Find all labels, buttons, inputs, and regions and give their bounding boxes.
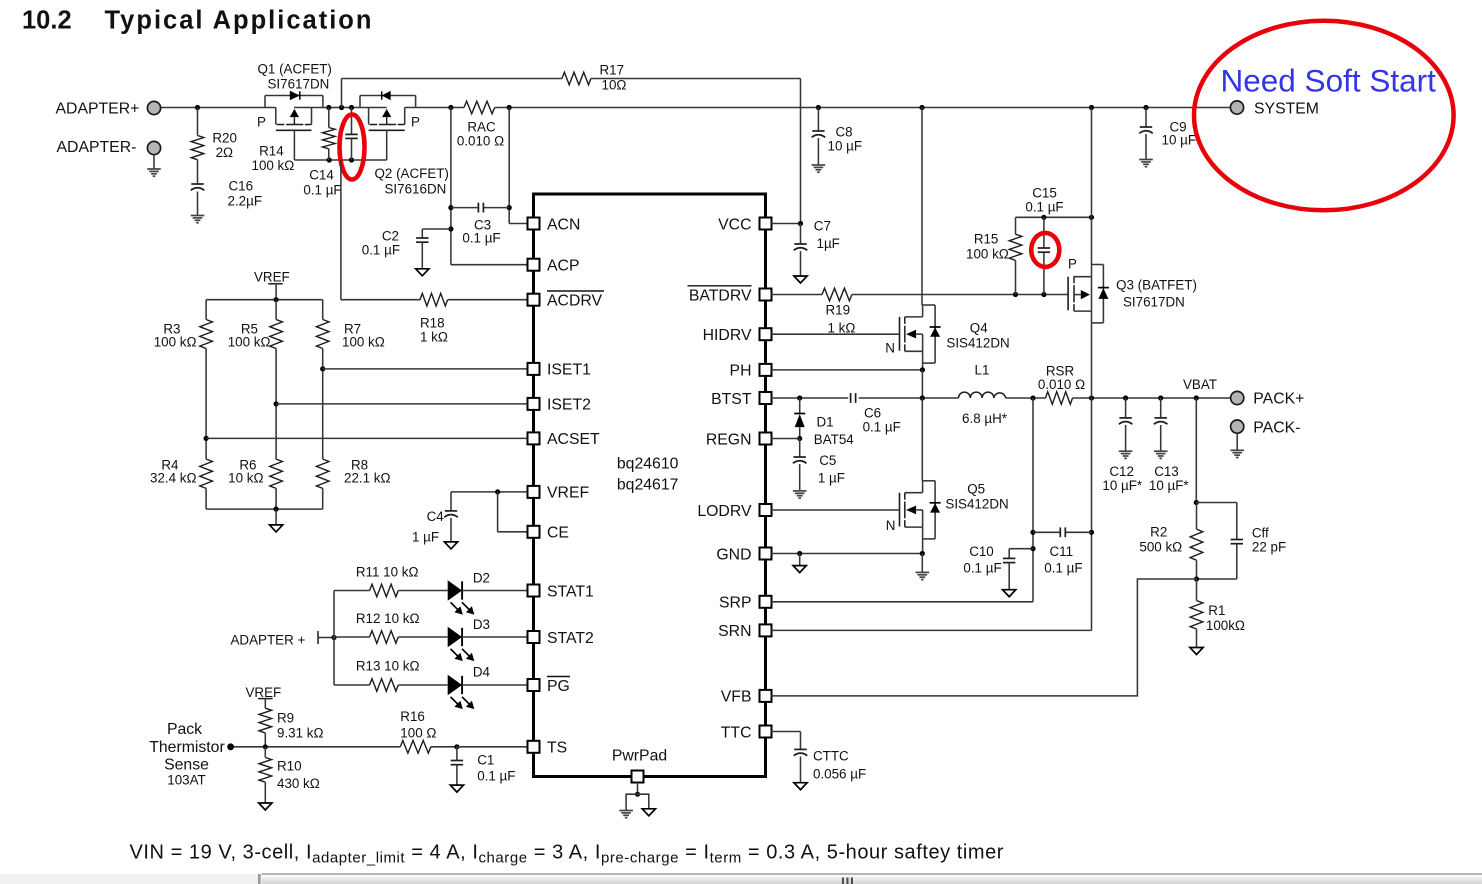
svg-text:Need Soft Start: Need Soft Start xyxy=(1221,63,1437,99)
svg-text:P: P xyxy=(411,115,420,130)
svg-text:GND: GND xyxy=(716,546,751,563)
svg-text:VCC: VCC xyxy=(718,216,751,233)
svg-text:1µF: 1µF xyxy=(817,236,840,251)
svg-text:VREF: VREF xyxy=(254,270,290,285)
svg-text:100kΩ: 100kΩ xyxy=(1206,618,1245,633)
svg-text:32.4 kΩ: 32.4 kΩ xyxy=(150,471,197,486)
svg-text:C13: C13 xyxy=(1154,464,1179,479)
svg-text:R19: R19 xyxy=(826,303,851,318)
svg-text:Q1 (ACFET): Q1 (ACFET) xyxy=(258,62,332,77)
svg-text:CE: CE xyxy=(547,525,569,542)
svg-text:0.1 µF: 0.1 µF xyxy=(477,769,515,784)
svg-text:R20: R20 xyxy=(212,131,237,146)
svg-text:10.2: 10.2 xyxy=(22,7,72,35)
svg-text:C11: C11 xyxy=(1050,544,1074,559)
svg-text:100 kΩ: 100 kΩ xyxy=(228,335,271,350)
svg-text:ADAPTER +: ADAPTER + xyxy=(231,633,306,648)
svg-text:HIDRV: HIDRV xyxy=(703,327,752,344)
svg-text:430 kΩ: 430 kΩ xyxy=(277,776,320,791)
svg-text:2Ω: 2Ω xyxy=(216,145,233,160)
svg-text:STAT1: STAT1 xyxy=(547,583,594,600)
svg-text:P: P xyxy=(257,115,266,130)
svg-text:Thermistor: Thermistor xyxy=(149,739,224,756)
svg-text:C4: C4 xyxy=(427,509,445,524)
svg-text:C2: C2 xyxy=(382,229,399,244)
svg-text:C7: C7 xyxy=(814,219,831,234)
svg-text:C1: C1 xyxy=(477,753,494,768)
svg-text:ACP: ACP xyxy=(547,258,579,275)
svg-text:CTTC: CTTC xyxy=(813,749,849,764)
svg-text:VIN = 19 V, 3-cell, Iadapter_l: VIN = 19 V, 3-cell, Iadapter_limit = 4 A… xyxy=(130,842,1004,867)
svg-text:Q5: Q5 xyxy=(967,482,985,497)
svg-text:0.1 µF: 0.1 µF xyxy=(1025,200,1063,215)
svg-text:0.1 µF: 0.1 µF xyxy=(303,183,341,198)
svg-text:RAC: RAC xyxy=(467,120,496,135)
svg-text:Q4: Q4 xyxy=(970,321,988,336)
svg-text:ADAPTER+: ADAPTER+ xyxy=(56,101,140,118)
svg-text:100 Ω: 100 Ω xyxy=(400,726,436,741)
svg-text:Pack: Pack xyxy=(167,721,202,738)
svg-text:PACK+: PACK+ xyxy=(1253,391,1304,408)
svg-text:1 kΩ: 1 kΩ xyxy=(828,321,856,336)
svg-text:100 kΩ: 100 kΩ xyxy=(154,335,197,350)
svg-text:C16: C16 xyxy=(229,179,254,194)
svg-text:C15: C15 xyxy=(1032,186,1057,201)
svg-text:R17: R17 xyxy=(600,63,625,78)
svg-text:PH: PH xyxy=(730,363,752,380)
svg-text:REGN: REGN xyxy=(706,431,752,448)
svg-text:D2: D2 xyxy=(473,571,490,586)
svg-text:Q2 (ACFET): Q2 (ACFET) xyxy=(375,166,449,181)
svg-text:0.1 µF: 0.1 µF xyxy=(462,231,500,246)
svg-text:0.010 Ω: 0.010 Ω xyxy=(457,134,504,149)
svg-text:SRN: SRN xyxy=(718,623,751,640)
svg-text:bq24610: bq24610 xyxy=(617,456,679,473)
svg-text:D4: D4 xyxy=(473,665,491,680)
svg-text:100 kΩ: 100 kΩ xyxy=(342,335,385,350)
svg-text:ACN: ACN xyxy=(547,216,580,233)
svg-text:R15: R15 xyxy=(974,232,999,247)
svg-text:STAT2: STAT2 xyxy=(547,630,594,647)
svg-text:9.31 kΩ: 9.31 kΩ xyxy=(277,726,324,741)
svg-text:ISET1: ISET1 xyxy=(547,362,591,379)
svg-text:10Ω: 10Ω xyxy=(602,78,627,93)
svg-text:SI7617DN: SI7617DN xyxy=(268,77,330,92)
svg-text:2.2µF: 2.2µF xyxy=(228,194,263,209)
svg-text:R18: R18 xyxy=(420,316,445,331)
svg-text:PACK-: PACK- xyxy=(1253,419,1300,436)
svg-text:SIS412DN: SIS412DN xyxy=(945,497,1008,512)
svg-text:R16: R16 xyxy=(400,709,425,724)
svg-text:6.8 µH*: 6.8 µH* xyxy=(962,411,1007,426)
svg-text:0.1 µF: 0.1 µF xyxy=(1044,561,1082,576)
svg-text:0.056 µF: 0.056 µF xyxy=(813,767,866,782)
svg-text:SI7616DN: SI7616DN xyxy=(385,182,447,197)
svg-text:TTC: TTC xyxy=(721,724,752,741)
svg-text:R1: R1 xyxy=(1208,603,1225,618)
svg-text:N: N xyxy=(885,341,895,356)
svg-text:C8: C8 xyxy=(836,125,853,140)
svg-text:Cff: Cff xyxy=(1252,526,1269,541)
svg-text:Sense: Sense xyxy=(164,757,209,774)
svg-text:ACDRV: ACDRV xyxy=(547,293,602,310)
svg-text:R10: R10 xyxy=(277,759,302,774)
svg-text:PG: PG xyxy=(547,678,570,695)
svg-text:10 kΩ: 10 kΩ xyxy=(228,471,263,486)
svg-text:SIS412DN: SIS412DN xyxy=(946,336,1009,351)
svg-text:R12 10 kΩ: R12 10 kΩ xyxy=(356,611,420,626)
svg-text:BAT54: BAT54 xyxy=(814,432,854,447)
svg-text:100 kΩ: 100 kΩ xyxy=(966,247,1009,262)
svg-text:VFB: VFB xyxy=(721,689,752,706)
svg-text:22.1 kΩ: 22.1 kΩ xyxy=(344,471,391,486)
svg-text:C12: C12 xyxy=(1109,464,1134,479)
svg-text:N: N xyxy=(886,518,896,533)
svg-text:SYSTEM: SYSTEM xyxy=(1254,100,1319,117)
svg-text:1 µF: 1 µF xyxy=(412,530,439,545)
svg-text:500 kΩ: 500 kΩ xyxy=(1139,540,1182,555)
svg-text:R13 10 kΩ: R13 10 kΩ xyxy=(356,659,420,674)
svg-text:C6: C6 xyxy=(864,406,881,421)
svg-text:R9: R9 xyxy=(277,711,294,726)
svg-text:0.1 µF: 0.1 µF xyxy=(362,243,400,258)
svg-text:10 µF: 10 µF xyxy=(1162,133,1197,148)
svg-text:SI7617DN: SI7617DN xyxy=(1123,295,1185,310)
svg-text:Typical Application: Typical Application xyxy=(105,7,374,35)
svg-text:ADAPTER-: ADAPTER- xyxy=(57,139,137,156)
svg-text:D3: D3 xyxy=(473,617,490,632)
svg-text:SRP: SRP xyxy=(719,595,751,612)
svg-text:0.1 µF: 0.1 µF xyxy=(963,561,1001,576)
svg-text:0.010 Ω: 0.010 Ω xyxy=(1038,377,1085,392)
svg-text:L1: L1 xyxy=(975,363,990,378)
svg-text:10 µF*: 10 µF* xyxy=(1102,478,1142,493)
svg-text:VBAT: VBAT xyxy=(1183,377,1217,392)
svg-text:TS: TS xyxy=(547,740,567,757)
svg-text:Q3 (BATFET): Q3 (BATFET) xyxy=(1116,278,1197,293)
svg-text:VREF: VREF xyxy=(547,485,589,502)
svg-text:0.1 µF: 0.1 µF xyxy=(863,420,901,435)
svg-text:R11 10 kΩ: R11 10 kΩ xyxy=(356,565,419,580)
svg-text:10 µF*: 10 µF* xyxy=(1149,478,1189,493)
svg-text:BTST: BTST xyxy=(711,391,752,408)
svg-text:C5: C5 xyxy=(819,453,836,468)
svg-text:BATDRV: BATDRV xyxy=(689,287,752,304)
svg-text:C14: C14 xyxy=(309,168,334,183)
svg-text:bq24617: bq24617 xyxy=(617,477,679,494)
svg-text:R14: R14 xyxy=(259,144,284,159)
svg-text:PwrPad: PwrPad xyxy=(612,748,667,765)
svg-text:1 µF: 1 µF xyxy=(818,471,845,486)
svg-text:VREF: VREF xyxy=(246,685,282,700)
svg-text:P: P xyxy=(1068,257,1077,272)
svg-text:C10: C10 xyxy=(969,544,994,559)
svg-text:22 pF: 22 pF xyxy=(1252,540,1286,555)
svg-text:1 kΩ: 1 kΩ xyxy=(420,330,448,345)
svg-text:100 kΩ: 100 kΩ xyxy=(252,158,295,173)
svg-text:D1: D1 xyxy=(817,415,834,430)
svg-text:10 µF: 10 µF xyxy=(828,139,863,154)
svg-text:R2: R2 xyxy=(1150,525,1167,540)
svg-text:ISET2: ISET2 xyxy=(547,397,591,414)
svg-text:103AT: 103AT xyxy=(167,773,205,788)
svg-text:ACSET: ACSET xyxy=(547,431,600,448)
svg-text:LODRV: LODRV xyxy=(697,503,752,520)
